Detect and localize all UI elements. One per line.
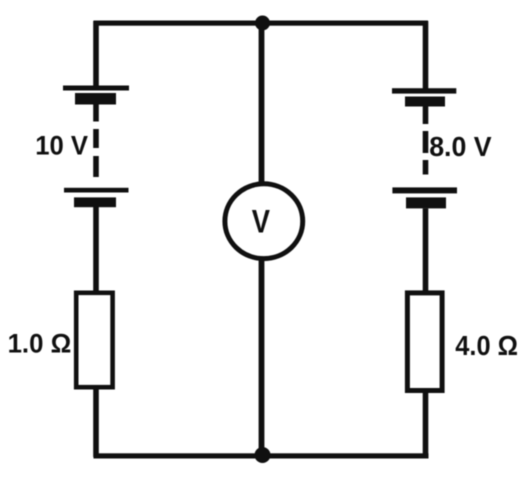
node top junction	[255, 16, 270, 31]
battery B2 cell 1 short thick plate (-)	[405, 97, 445, 107]
node bottom junction	[255, 447, 271, 463]
svg-text:10 V: 10 V	[35, 130, 88, 161]
wire bottom horizontal	[94, 453, 429, 458]
label 8.0 V (battery B2 value)	[429, 130, 492, 162]
wire middle branch: top node to voltmeter	[259, 21, 265, 183]
label 4.0 ohm (resistor R2 value)	[455, 330, 518, 361]
voltmeter U1 letter V	[252, 204, 270, 240]
wire resistor R1 to bottom wire	[93, 387, 99, 457]
wire below B2 cell 1	[423, 107, 429, 125]
wire resistor R2 to bottom wire	[423, 391, 429, 458]
wire battery B1 to resistor R1	[93, 207, 99, 293]
wire battery B2 to resistor R2	[423, 208, 429, 293]
battery B1 cell 1 long plate (+)	[63, 86, 129, 91]
resistor R2 body	[407, 293, 442, 391]
label 1.0 ohm (resistor R1 value)	[8, 328, 72, 359]
svg-text:4.0 Ω: 4.0 Ω	[455, 330, 518, 361]
battery B1 cell 2 short thick plate (-)	[74, 197, 116, 207]
wire dashed between B2 cells	[423, 131, 429, 175]
svg-text:8.0 V: 8.0 V	[429, 130, 492, 162]
voltmeter U1 circle	[225, 184, 303, 259]
svg-text:1.0 Ω: 1.0 Ω	[8, 328, 72, 359]
wire dashed between B1 cells	[93, 129, 99, 177]
battery B2 cell 2 long plate (+)	[392, 187, 457, 193]
battery B2 cell 2 short thick plate (-)	[406, 197, 446, 208]
battery B1 cell 1 short thick plate (-)	[75, 93, 116, 105]
wire left branch: top wire to battery B1	[93, 21, 99, 86]
resistor R1 body	[76, 293, 112, 387]
wire voltmeter to bottom node	[259, 259, 265, 451]
wire right branch: top wire to battery B2	[423, 21, 429, 89]
wire top horizontal	[94, 21, 429, 26]
svg-text:V: V	[252, 204, 270, 240]
battery B1 cell 2 long plate (+)	[64, 188, 129, 193]
battery B2 cell 1 long plate (+)	[392, 88, 456, 93]
wire below B1 cell 1	[93, 105, 99, 122]
label 10 V (battery B1 value)	[35, 130, 88, 161]
